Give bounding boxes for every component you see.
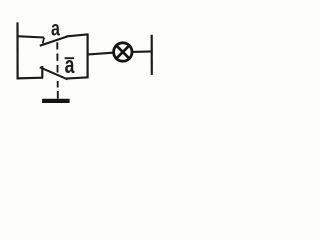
lamp L1 cross stroke 1 [116,46,129,59]
switch a moving arm (normally open) [40,36,68,45]
wire (connector to lamp) [87,53,114,55]
switch a hinge gap tick [43,38,45,44]
right connector bar joining both branches [86,34,88,79]
manual actuator bar [42,99,70,103]
wire (left rail bottom to switch a-bar) [17,77,44,80]
switch a-bar fixed contact tick [41,66,43,78]
switch a-bar moving arm (normally closed) [40,67,68,79]
wire (switch a fixed contact to right connector) [66,34,89,36]
label a-bar overline [65,57,74,59]
right terminal bar [151,35,153,75]
svg-text:a: a [65,52,75,79]
wire (lamp to right terminal) [133,50,152,53]
lamp L1 cross stroke 2 [116,46,129,59]
lamp L1 circle [114,43,132,61]
left terminal bar [16,22,18,79]
mechanical linkage dashed line [56,42,59,98]
wire (switch a-bar to right connector) [66,77,89,78]
wire (left rail to switch a hinge) [17,36,45,37]
svg-text:a: a [51,18,60,41]
